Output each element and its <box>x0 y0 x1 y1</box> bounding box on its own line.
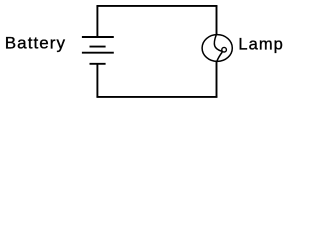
wire left lower vertical (battery - to bottom) <box>96 64 98 97</box>
battery plate long top <box>82 36 114 38</box>
wire right upper vertical (top to lamp) <box>216 6 218 35</box>
lamp filament loop <box>222 47 227 52</box>
battery <box>82 37 114 64</box>
wire bottom horizontal <box>96 96 217 98</box>
battery plate long <box>82 52 114 54</box>
wire top horizontal <box>96 5 217 7</box>
battery plate short bottom <box>90 63 106 65</box>
svg-text:Battery: Battery <box>5 34 66 53</box>
svg-text:Lamp: Lamp <box>238 36 283 54</box>
lamp bulb circle <box>202 35 232 62</box>
lamp filament curve <box>214 35 222 51</box>
wire left upper vertical (battery + to top) <box>96 6 98 37</box>
lamp filament exit curve <box>217 52 222 61</box>
wire right lower vertical (lamp to bottom) <box>216 61 218 97</box>
lamp <box>202 35 232 62</box>
battery plate short <box>90 46 106 48</box>
